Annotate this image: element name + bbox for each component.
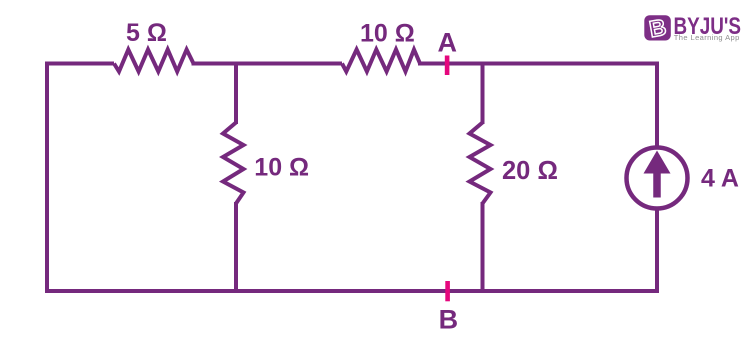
current source I1 circle [627,148,688,209]
svg-text:B: B [439,304,459,334]
svg-text:10 Ω: 10 Ω [360,20,415,48]
wire bottom [45,289,659,293]
current source arrow shaft [653,168,661,198]
svg-text:4 A: 4 A [701,165,739,193]
wire top-right segment [418,62,659,66]
wire top-left segment [45,62,114,66]
resistor R1 5ohm [114,50,194,72]
wire branch2 upper [481,64,485,125]
resistor R2 10ohm horizontal [342,50,420,72]
wire right edge upper [655,62,659,147]
svg-text:A: A [437,28,457,58]
node B tick [445,281,450,301]
node A tick [445,56,450,76]
logo BYJU'S icon box [644,15,671,40]
svg-text:10 Ω: 10 Ω [254,154,309,182]
resistor R3 10ohm vertical [223,123,244,204]
svg-text:The Learning App: The Learning App [674,33,740,42]
wire branch1 upper [234,64,238,125]
wire right edge lower [655,210,659,293]
wire branch2 lower [481,202,485,293]
logo BYJU'S icon B glyph [647,14,668,42]
wire branch1 lower [234,202,238,293]
resistor R4 20ohm vertical [470,123,491,204]
svg-text:5 Ω: 5 Ω [126,19,167,47]
wire left edge [45,62,49,294]
svg-text:20 Ω: 20 Ω [502,157,558,185]
current source arrow head [644,151,671,174]
wire top-middle segment [192,62,343,66]
